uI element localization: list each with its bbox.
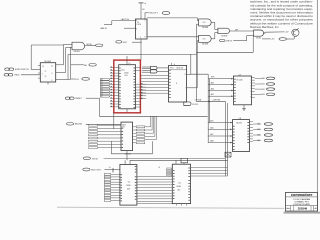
U50 left pin numbers	[234, 79, 236, 102]
svg-text:74 XXX: 74 XXX	[192, 104, 199, 106]
wire U70 down to U80 rail	[126, 151, 128, 161]
svg-text:A07: A07	[210, 133, 213, 136]
svg-text:1: 1	[315, 208, 316, 210]
svg-text:D3: D3	[101, 86, 103, 88]
svg-text:B03: B03	[262, 94, 265, 96]
svg-text:BUS X SYS: BUS X SYS	[91, 170, 101, 172]
svg-text:74: 74	[45, 71, 47, 73]
svg-text:LAST LN: LAST LN	[121, 18, 130, 21]
U90 left pin numbers	[173, 170, 175, 199]
svg-text:8: 8	[145, 37, 146, 39]
svg-text:SOP: SOP	[123, 42, 128, 44]
wire video row	[262, 38, 271, 40]
svg-text:LS74: LS74	[137, 24, 141, 26]
svg-text:A07: A07	[211, 93, 214, 96]
connector ovals HELD	[4, 73, 9, 76]
flip-flop U10 74LS74	[136, 19, 148, 39]
svg-text:74LSXX: 74LSXX	[236, 122, 243, 124]
wire +5 down to U10	[140, 3, 142, 19]
U80 right pins bus to U90	[137, 176, 172, 198]
svg-text:CT RDB: CT RDB	[195, 100, 202, 102]
svg-text:B05: B05	[257, 129, 260, 131]
U90 right pins to vertical bus	[191, 168, 228, 176]
svg-text:A05: A05	[211, 81, 214, 84]
svg-text:A6: A6	[84, 64, 86, 67]
gate A6a	[151, 66, 157, 69]
svg-text:B06: B06	[257, 135, 260, 137]
wire Q1 emitter to video oval	[293, 36, 295, 39]
connector oval A6	[89, 64, 96, 67]
svg-text:010: 010	[125, 75, 128, 77]
wire PULL row	[71, 78, 74, 80]
wire mid horizontal y116.3	[99, 115, 207, 117]
wire vertical x208 pair	[207, 74, 209, 142]
svg-text:74 L5XX: 74 L5XX	[237, 80, 244, 82]
counter U20 74LS93	[40, 63, 55, 82]
svg-text:RESET: RESET	[75, 98, 82, 100]
U40 right pin F wire	[187, 87, 198, 89]
U30 left pin numbers	[119, 68, 121, 108]
svg-text:C14: C14	[121, 70, 124, 72]
wire LAST LN input	[112, 20, 136, 22]
svg-text:+5: +5	[158, 167, 160, 169]
svg-text:A06: A06	[210, 126, 213, 129]
svg-text:D2: D2	[101, 84, 103, 86]
ROM U30 C14 6540	[119, 65, 136, 109]
U90 top pin stubs	[175, 160, 177, 164]
transistor Q1	[292, 29, 299, 36]
page right border	[316, 0, 318, 214]
svg-text:A08: A08	[210, 140, 213, 143]
svg-text:74LS00: 74LS00	[74, 51, 80, 53]
gate A6b	[151, 70, 157, 73]
ROM U90 C4 6540	[172, 164, 190, 203]
svg-text:14: 14	[42, 66, 44, 68]
wire routing box below U70	[110, 141, 112, 154]
svg-text:C4: C4	[178, 182, 180, 184]
svg-text:74LS08: 74LS08	[202, 44, 208, 46]
svg-text:D6: D6	[101, 93, 103, 95]
svg-text:HORZ DISP ON: HORZ DISP ON	[15, 69, 29, 71]
page bottom edge shadow	[57, 207, 284, 208]
svg-text:8: 8	[176, 83, 177, 85]
buffer A7 below U40	[184, 102, 191, 106]
svg-text:LS8: LS8	[203, 22, 206, 24]
connector oval PULL	[82, 78, 90, 81]
wire long horizontal y54	[68, 53, 197, 55]
title block outer box	[286, 192, 318, 211]
title block cell dividers	[290, 206, 292, 212]
wire Q1 collector	[297, 28, 299, 30]
wire LINE 74 to A4	[233, 40, 247, 42]
U40 left pin numbers	[169, 70, 171, 98]
U50 output ovals	[255, 77, 275, 96]
U90 right pin numbers	[188, 168, 190, 177]
svg-text:LINE 74: LINE 74	[226, 40, 233, 42]
wire A5 out	[85, 44, 96, 47]
U60 right inner pin numbers	[247, 122, 249, 143]
svg-text:A06: A06	[211, 87, 214, 90]
connector oval BUS X SYS	[83, 168, 90, 171]
wire red box corner down	[113, 113, 115, 129]
svg-text:74LS-XX: 74LS-XX	[176, 67, 184, 69]
U40 right pin E wire	[187, 74, 191, 76]
title block divider 2	[286, 205, 318, 207]
wire U10 bottom down	[140, 39, 142, 60]
svg-text:C9: C9	[239, 74, 241, 76]
connector oval RA LINE	[67, 123, 74, 126]
svg-text:PULL: PULL	[74, 79, 79, 81]
long wire to crystal	[104, 157, 226, 159]
svg-text:74LS93: 74LS93	[44, 61, 52, 63]
connector oval VIDEO	[279, 38, 286, 41]
svg-text:+5: +5	[109, 167, 111, 169]
wire A6 row	[71, 64, 84, 66]
svg-text:LAB 30: LAB 30	[100, 27, 107, 30]
title block divider 1	[286, 196, 318, 198]
svg-text:B02: B02	[262, 89, 265, 91]
wire A1 out to A3	[211, 21, 215, 23]
svg-text:C8: C8	[239, 118, 241, 120]
svg-text:LS8: LS8	[203, 39, 206, 41]
wire verticals to lower section	[225, 101, 227, 176]
wire vertical x190.8	[190, 54, 192, 74]
svg-text:B01: B01	[262, 84, 265, 86]
wire U10 D input	[124, 27, 136, 29]
svg-text:MC30: MC30	[87, 44, 92, 46]
power +5 symbol	[139, 2, 144, 4]
copyright notice text block	[250, 0, 313, 29]
wire SOP to clock node	[132, 41, 141, 43]
svg-text:C5: C5	[128, 181, 130, 183]
svg-text:HELD: HELD	[15, 75, 21, 77]
U20 bottom stub	[47, 82, 49, 85]
svg-text:93: 93	[45, 76, 47, 78]
wire HORZ DISP ON to U20	[31, 68, 41, 70]
bottom wires U80-U90	[137, 201, 172, 203]
svg-text:B07: B07	[257, 140, 260, 142]
svg-text:010: 010	[177, 189, 180, 191]
wire vertical x197.2	[196, 41, 198, 88]
svg-text:74L86: 74L86	[256, 37, 261, 39]
wire gate A1 lower input	[197, 23, 199, 25]
svg-text:320349: 320349	[298, 207, 308, 211]
svg-text:A05: A05	[210, 120, 213, 123]
U60 left pin numbers	[233, 126, 235, 150]
connector oval MC30	[96, 44, 103, 47]
svg-text:P13: P13	[170, 67, 173, 69]
U20 left pin stubs	[38, 64, 40, 66]
wire A3 out to A4	[230, 30, 254, 32]
character ROM U50 C9	[234, 76, 252, 105]
crystal Y1	[225, 152, 231, 157]
svg-text:6540: 6540	[177, 186, 181, 188]
svg-text:D0: D0	[101, 79, 103, 81]
capacitor C5 on top of U90	[181, 158, 188, 163]
connector oval SOP	[116, 41, 122, 44]
highlight red rectangle	[114, 60, 141, 113]
svg-text:12: 12	[51, 66, 53, 68]
connector ovals RESET	[65, 97, 70, 100]
U30 outer pin digits right	[141, 83, 143, 98]
U80 left label boxes	[104, 173, 120, 201]
wire left bend to bus	[31, 44, 63, 46]
connector oval PULLUP	[162, 12, 170, 15]
U30 outer pin digits left	[111, 67, 113, 107]
wire A5 inputs	[64, 44, 73, 46]
svg-text:commodore: commodore	[291, 193, 313, 197]
U80 right pin numbers	[135, 176, 137, 199]
U30 right pin stubs short	[136, 101, 141, 103]
page bottom-right dark edge	[284, 212, 320, 214]
U30 right pin stubs long	[136, 84, 147, 99]
U70 right pins fan to vertical bus	[145, 116, 157, 139]
connector oval LINE 74	[220, 39, 225, 42]
svg-text:74LS: 74LS	[122, 124, 126, 126]
wire top rail to U90	[130, 159, 228, 161]
wire A4 out to Q1	[265, 31, 285, 33]
connector ovals HORZ DISP ON	[5, 68, 10, 71]
wire U10 Qbar to gate A2	[147, 36, 199, 38]
svg-text:D4: D4	[101, 89, 103, 91]
U50 input wires with arrows	[208, 77, 234, 97]
wire RA LINE to U70	[86, 123, 121, 125]
U60 input wires with arrows	[208, 120, 233, 144]
wire gate A2 lower input	[197, 40, 198, 42]
U70 left label boxes	[89, 124, 122, 148]
wire RESET right	[86, 97, 100, 99]
svg-text:6550: 6550	[126, 185, 130, 187]
svg-text:4: 4	[136, 20, 137, 22]
U20 right pins to bus	[56, 64, 64, 66]
U50 bottom ground stub	[243, 105, 245, 109]
gate A4 74L86	[254, 30, 264, 36]
connector oval 3 IN 5B	[83, 157, 90, 160]
svg-text:B04: B04	[257, 124, 260, 126]
wire C14 top pin	[126, 56, 128, 65]
U30 right pin numbers	[134, 68, 136, 108]
vertical bus lines	[63, 45, 65, 65]
svg-text:5: 5	[145, 20, 146, 22]
gate A3 74LS08	[218, 28, 230, 33]
wires into small gates	[142, 66, 151, 68]
U90 bottom pin stubs	[176, 204, 178, 206]
RAM U80 C5 6550	[120, 165, 137, 206]
wire RESET down to mid bus	[98, 98, 100, 116]
shifter U40 74LS166	[169, 65, 187, 102]
U60 output ovals	[253, 123, 273, 143]
U80 left pin numbers	[121, 174, 123, 201]
U60 right pin comb	[250, 122, 254, 142]
wire U10 preset to PULLUP 1	[144, 13, 146, 20]
resistor R2	[112, 168, 114, 172]
svg-text:RA LINE: RA LINE	[75, 123, 83, 126]
U30 bottom pin stub	[126, 109, 128, 112]
wire HELD to U20	[21, 74, 40, 76]
wire bend LAB 30	[111, 21, 113, 25]
svg-text:74LS08: 74LS08	[202, 27, 208, 29]
U70 right label boxes	[133, 126, 145, 144]
wire U10 Q to gate A1	[147, 17, 198, 19]
gate A2 74LS08	[199, 35, 212, 42]
junction dot	[140, 42, 141, 43]
mux U70 74LS157	[121, 122, 133, 151]
wire CT RDB arrow	[196, 101, 225, 103]
svg-text:004: 004	[127, 188, 130, 190]
gate A5 74LS00	[72, 42, 85, 50]
svg-text:D5: D5	[101, 91, 103, 93]
svg-text:3: 3	[136, 29, 137, 31]
wires small gates to U40	[157, 67, 169, 69]
bus label boxes D0-D7	[100, 78, 110, 97]
wire vertical x196.5	[196, 24, 198, 101]
wire feedback from A4	[252, 36, 254, 52]
svg-text:PULLUP 1: PULLUP 1	[149, 13, 159, 15]
svg-text:74LS08: 74LS08	[221, 35, 227, 37]
svg-text:D7: D7	[101, 96, 103, 98]
wire BUS X SYS to U80	[105, 169, 120, 171]
svg-text:13: 13	[184, 74, 186, 76]
U80 top pins	[124, 160, 126, 164]
gate A1 74LS08	[199, 19, 212, 26]
svg-text:Business Machines, Inc.: Business Machines, Inc.	[250, 25, 279, 29]
latch U60 C8	[233, 120, 250, 152]
U70 left pin numbers	[122, 128, 124, 148]
svg-text:+CHROM: +CHROM	[212, 100, 220, 102]
U30 left pin stubs	[110, 68, 119, 107]
wire A2 out to A3	[211, 38, 215, 40]
svg-text:D1: D1	[101, 81, 103, 83]
wires C14 to U40 bus	[140, 76, 168, 94]
U50 right pin comb	[250, 77, 255, 99]
wire from U40 to x208	[191, 73, 208, 75]
svg-text:3 IN 5B: 3 IN 5B	[92, 158, 99, 160]
